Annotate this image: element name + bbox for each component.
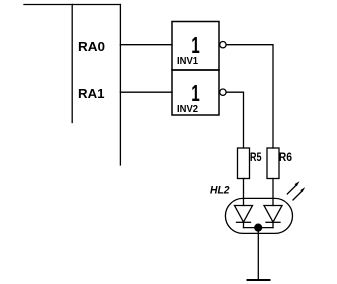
- wire: R6 to LED anode: [272, 179, 274, 206]
- wire: cathode link: [244, 227, 274, 229]
- node: INV2 output inversion bubble: [220, 89, 226, 95]
- diode HL2a cathode bar: [237, 221, 251, 223]
- svg-text:1: 1: [191, 80, 200, 106]
- wire: IC box right edge: [119, 5, 121, 166]
- op-amp U2: inverter INV2 box: [172, 70, 219, 115]
- op-amp U1: inverter INV1 box: [172, 22, 219, 71]
- wire: HL2b cathode stub: [272, 222, 274, 227]
- junction: common cathode node: [255, 224, 262, 231]
- svg-text:INV2: INV2: [177, 104, 198, 115]
- svg-text:1: 1: [191, 32, 200, 58]
- LED emission arrow 1 head: [295, 181, 300, 186]
- svg-text:R6: R6: [279, 150, 292, 164]
- wire: INV1 output to R6: [226, 45, 273, 148]
- diode HL2b triangle: [264, 206, 282, 223]
- LED HL2 package outline: [225, 198, 292, 233]
- wire: INV2 output to R5: [226, 92, 243, 148]
- ground: [248, 279, 270, 281]
- diode HL2b cathode bar: [266, 221, 280, 223]
- wire: R5 to LED anode: [243, 179, 245, 206]
- LED emission arrow 2: [293, 191, 302, 200]
- wire: HL2a cathode stub: [243, 222, 245, 227]
- LED emission arrow 1: [287, 185, 296, 194]
- diode HL2a triangle: [235, 206, 253, 223]
- wire: pin RA0 to INV1 input: [120, 44, 172, 46]
- svg-text:R5: R5: [250, 150, 262, 164]
- svg-text:RA1: RA1: [78, 86, 105, 101]
- svg-text:HL2: HL2: [210, 184, 230, 196]
- svg-text:RA0: RA0: [78, 39, 105, 54]
- wire: IC box top edge: [24, 4, 120, 6]
- resistor R6 body: [267, 148, 279, 179]
- svg-text:INV1: INV1: [177, 56, 198, 67]
- wire: IC box inner vertical: [71, 5, 73, 123]
- resistor R5 body: [238, 148, 250, 179]
- LED emission arrow 2 head: [300, 187, 305, 192]
- node: INV1 output inversion bubble: [220, 42, 226, 48]
- wire: common cathode to ground: [257, 228, 259, 280]
- wire: pin RA1 to INV2 input: [120, 91, 172, 93]
